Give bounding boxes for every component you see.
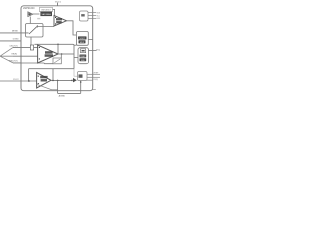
svg-text:TEMP: TEMP [80, 56, 86, 58]
wire x74 vertical stub into register block [74, 44, 76, 46]
node dot F [71, 80, 73, 82]
svg-text:C2(F): C2(F) [93, 79, 98, 81]
wire pin AGND (bottom) [58, 80, 81, 93]
feedback node wire (y=44.3 rail) [34, 44, 74, 68]
wire bias box to op-amp A1 [53, 10, 55, 16]
svg-text:C1/C2: C1/C2 [13, 79, 20, 81]
faint ref label [37, 18, 40, 19]
wire pin SCL [88, 15, 96, 17]
wire pin MENB (left, y=33) [0, 32, 29, 34]
op-amp A1 (control amplifier, top) [54, 16, 67, 27]
wire node A to op-amp A2 output [57, 44, 59, 53]
wire DAC to mux box [29, 17, 31, 24]
svg-text:AGND: AGND [59, 95, 66, 98]
svg-text:LMP91000: LMP91000 [23, 7, 35, 10]
IC body U1 LMP91000 outline [21, 6, 93, 91]
wire feedback down to TIA input [28, 69, 30, 81]
wire x74 light continuation to switch block [74, 69, 78, 77]
sensor electrode fan (gas sensor connections) [0, 47, 13, 63]
op-amp A2 (potentiostat, middle) [38, 45, 58, 63]
svg-text:MUX: MUX [80, 42, 85, 44]
wire A1 output to register block [67, 21, 77, 35]
variable bias box dark register [40, 12, 52, 17]
svg-text:VOUT: VOUT [80, 38, 86, 40]
wire TIA plus input to ground diagonal [37, 84, 58, 89]
wire pin RE [13, 55, 38, 57]
wire pin VOUT [89, 49, 97, 51]
op-amp A2 input marks [39, 47, 40, 48]
svg-text:VDD1: VDD1 [55, 2, 62, 4]
svg-text:ENB: ENB [97, 18, 100, 20]
svg-text:VARIABLE: VARIABLE [41, 9, 52, 12]
wire mux to op-amp A1 inverting input [37, 26, 54, 28]
switch contact [36, 25, 38, 27]
wire pin MENB2 [88, 17, 96, 19]
temp sensor dark bar 2 [80, 58, 87, 61]
wire stub right edge bottom [93, 89, 96, 91]
switch S1 (CE path) [30, 45, 33, 50]
svg-text:VOUT: VOUT [96, 49, 100, 51]
output switch block (bottom right) [78, 72, 88, 81]
temp sensor icon [81, 49, 86, 53]
svg-text:MENB: MENB [12, 31, 18, 33]
node dot G [80, 81, 82, 83]
wire A2 output [58, 53, 74, 55]
op-amp A1 input marks [55, 17, 56, 18]
node dot B [61, 53, 63, 55]
wire pin VREF (right) [87, 73, 100, 75]
node dot E [57, 80, 59, 82]
op-amp A3 TIA (bottom) [37, 73, 51, 89]
wire TIA output tap up to rail [52, 69, 54, 81]
svg-text:RE(R): RE(R) [11, 54, 17, 56]
svg-text:SCL: SCL [97, 15, 100, 17]
node dot A [57, 44, 59, 46]
wire pin C2 (right) [87, 76, 100, 78]
interface block (top right, I2C) [80, 11, 89, 21]
feedback rail (y=68.7) [29, 68, 74, 70]
temp sensor dark bar 1 [80, 55, 87, 58]
variable bias box label part [39, 8, 52, 12]
wire TIA output [51, 79, 72, 81]
svg-text:VREF: VREF [93, 72, 99, 74]
wire node B to switch S2 [60, 54, 62, 58]
switch S2 (WE path) [53, 58, 61, 64]
svg-text:WE(CNT): WE(CNT) [9, 61, 18, 63]
wire pin DGND (left, y=41) [0, 40, 21, 42]
DAC buffer amp A4 (small triangle top-left) [28, 12, 33, 17]
wire mux to switch S1 [30, 37, 32, 45]
op-amp A3 input marks [38, 76, 39, 77]
node dot C [28, 80, 30, 82]
svg-text:VAR BIAS: VAR BIAS [41, 13, 51, 16]
pin VDD (top) [57, 3, 59, 6]
switch blade inside mux [29, 26, 37, 34]
wire stub pin [87, 79, 93, 81]
node dot D [52, 80, 54, 82]
svg-text:DGND: DGND [13, 39, 19, 41]
temp sensor block (right) [78, 48, 89, 64]
svg-text:CE(CNT): CE(CNT) [9, 45, 18, 47]
svg-text:SDA: SDA [97, 11, 100, 14]
wire register block stub to edge [88, 39, 92, 41]
wire pin SDA [88, 12, 96, 14]
wire pin C1 (left, y=81) [0, 80, 37, 82]
wire pin WE [13, 62, 53, 65]
wire DAC to bias box [33, 13, 40, 15]
mux box (switch matrix) [26, 24, 44, 38]
wire temp block left stub [74, 57, 78, 59]
register/mux block (mid right) [76, 32, 88, 46]
transistor Q1 symbol at TIA output [73, 78, 77, 83]
wire pin CE [13, 46, 38, 48]
